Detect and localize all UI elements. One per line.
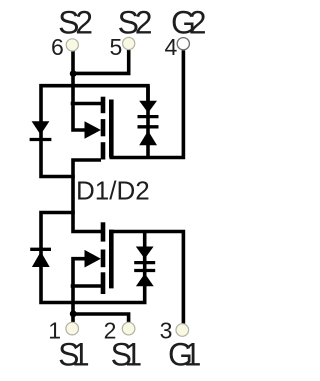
- svg-text:S2: S2: [118, 4, 153, 40]
- svg-text:D1/D2: D1/D2: [76, 175, 150, 205]
- svg-text:1: 1: [48, 318, 61, 344]
- svg-text:5: 5: [110, 34, 123, 60]
- svg-text:G1: G1: [168, 337, 201, 373]
- svg-text:S1: S1: [58, 337, 90, 373]
- svg-text:2: 2: [104, 318, 117, 344]
- svg-text:4: 4: [165, 34, 178, 60]
- svg-text:6: 6: [51, 34, 64, 60]
- svg-text:3: 3: [160, 318, 173, 344]
